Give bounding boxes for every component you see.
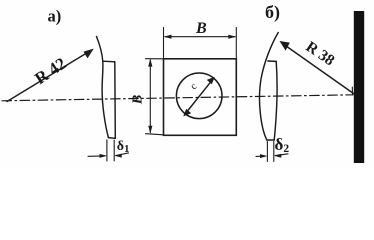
svg-text:R 38: R 38 xyxy=(303,38,338,69)
label B left (rotated) xyxy=(130,95,145,105)
circle diameter arrow xyxy=(186,80,213,114)
left B dimension line xyxy=(149,60,151,133)
left B extension lines xyxy=(146,58,163,60)
svg-text:δ2: δ2 xyxy=(275,135,290,155)
lens a bottom edge xyxy=(108,137,115,140)
svg-text:B: B xyxy=(195,20,207,37)
delta2 dimension left arrow xyxy=(256,155,266,157)
label R 42 (rotated) xyxy=(31,54,69,89)
svg-text:б): б) xyxy=(265,2,280,23)
svg-text:a): a) xyxy=(48,6,62,25)
lens b bottom edge xyxy=(267,139,274,141)
delta1 dimension left arrow xyxy=(88,155,105,157)
leader arrow R42 head xyxy=(84,49,94,59)
square blank outline xyxy=(164,59,237,136)
lens a left surface xyxy=(97,37,109,138)
delta2 extension lines xyxy=(266,142,268,162)
svg-text:δ1: δ1 xyxy=(117,139,130,155)
delta1 dimension right arrow xyxy=(116,153,129,156)
optical axis centerline xyxy=(2,95,353,101)
lens b right surface xyxy=(274,61,277,140)
lens b left surface xyxy=(260,33,279,141)
lens a right surface xyxy=(114,62,117,139)
label R 38 (rotated) xyxy=(303,38,338,69)
delta1 extension lines xyxy=(106,140,108,161)
lens b top edge xyxy=(268,60,276,62)
lens a top edge xyxy=(103,60,115,63)
leader arrow R38 head xyxy=(280,41,290,51)
delta2 dimension right arrow xyxy=(275,154,288,156)
black bar (mirror) xyxy=(354,11,364,163)
leader arrow R38 line xyxy=(283,44,354,94)
leader arrow R42 line xyxy=(7,50,91,101)
svg-text:B: B xyxy=(130,95,145,105)
circle (lens diameter) xyxy=(176,73,222,119)
top B extension lines xyxy=(163,28,165,58)
label c (rotated) xyxy=(189,81,200,93)
top B dimension line xyxy=(165,36,235,38)
svg-text:c: c xyxy=(189,81,200,93)
tick at mirror xyxy=(351,87,353,95)
